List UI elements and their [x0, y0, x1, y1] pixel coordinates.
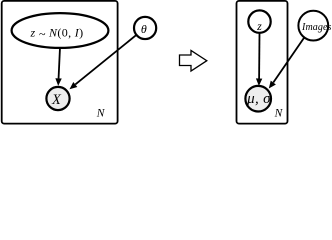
wire ellipse to X [59, 48, 60, 79]
plate N (left) [2, 1, 118, 124]
wire theta to X [75, 35, 136, 84]
svg-text:θ: θ [141, 22, 147, 36]
svg-text:N: N [274, 108, 284, 120]
svg-text:z ~ N(0, I): z ~ N(0, I) [29, 26, 83, 41]
arrowhead into X (diagonal) [70, 82, 78, 89]
arrowhead into mu,sigma (diagonal) [269, 81, 276, 89]
wire Images to mu,sigma [273, 38, 304, 83]
node theta [134, 17, 156, 39]
svg-text:X: X [51, 92, 62, 108]
arrowhead into X (vertical) [55, 78, 61, 86]
node Images [298, 11, 328, 41]
plate N (right) [237, 1, 288, 124]
node z~N(0,I) ellipse [12, 13, 109, 48]
svg-text:μ, σ: μ, σ [246, 91, 271, 107]
svg-text:z: z [256, 19, 262, 33]
svg-text:Images: Images [301, 22, 331, 33]
node z (right) [248, 10, 270, 32]
wire z to mu,sigma [258, 33, 260, 78]
svg-text:N: N [96, 108, 106, 120]
node mu,sigma (observed) [245, 86, 271, 112]
node X (observed) [46, 87, 69, 110]
big hollow arrow [180, 51, 207, 72]
arrowhead into mu,sigma (vertical) [256, 78, 262, 86]
